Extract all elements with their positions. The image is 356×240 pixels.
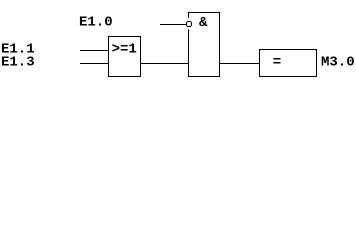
negation circle at AND gate input 1 bbox=[186, 18, 192, 30]
svg-text:E1.0: E1.0 bbox=[79, 15, 113, 31]
svg-text:&: & bbox=[199, 15, 208, 31]
wire AND gate output to assign coil bbox=[219, 63, 260, 64]
assign coil box (=) bbox=[260, 50, 317, 77]
AND gate box bbox=[189, 13, 220, 77]
OR gate box bbox=[109, 37, 141, 77]
wire E1.1 to OR gate input 1 bbox=[80, 50, 109, 51]
svg-text:E1.3: E1.3 bbox=[1, 55, 35, 71]
wire E1.3 to OR gate input 2 bbox=[80, 63, 109, 64]
svg-text:M3.0: M3.0 bbox=[321, 55, 355, 71]
wire E1.0 to AND gate negated input bbox=[160, 24, 186, 25]
svg-text:=: = bbox=[273, 55, 281, 71]
svg-text:>=1: >=1 bbox=[112, 42, 137, 58]
wire OR gate output to AND gate input 2 bbox=[140, 63, 189, 64]
